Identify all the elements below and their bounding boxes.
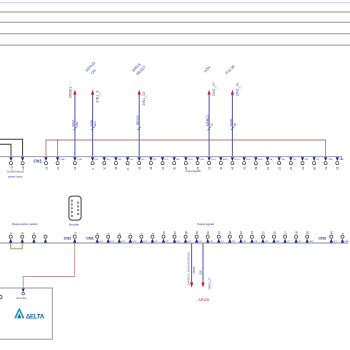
terminal CN1 pin 8 (126, 157, 134, 170)
svg-text:DI4-: DI4- (129, 159, 133, 161)
svg-text:35: 35 (261, 231, 265, 235)
svg-text:KIRMIZI: KIRMIZI (205, 115, 209, 126)
svg-text:4: 4 (96, 232, 100, 234)
terminal output pin 3 (341, 232, 350, 243)
wire input ARIZA RESET BEYAZ (138, 94, 140, 157)
svg-text:PULSE: PULSE (225, 64, 237, 76)
wire input PULSE YESIL (231, 94, 233, 157)
terminal CN1 pin L2c (21, 157, 25, 170)
svg-text:DI1-: DI1- (95, 159, 99, 161)
arrow up signal 2 (91, 90, 94, 95)
svg-text:COM-: COM- (77, 159, 83, 161)
terminal output pin 30 (206, 231, 214, 243)
svg-text:1.1.2: 1.1.2 (70, 81, 72, 85)
svg-text:/OA: /OA (281, 158, 285, 161)
terminal CN1 pin 10 (103, 157, 111, 170)
terminal output pin 5 (107, 232, 116, 243)
svg-text:GND: GND (309, 241, 314, 243)
svg-text:ON: ON (90, 68, 97, 75)
svg-text:1.1.2: 1.1.2 (241, 85, 243, 89)
svg-text:Output signals: Output signals (197, 222, 215, 226)
svg-text:BEYAZ: BEYAZ (136, 115, 140, 125)
terminal CN1 pin 34 (114, 157, 122, 170)
svg-text:OB: OB (293, 159, 297, 161)
wire control power L1c feed (0, 144, 11, 156)
terminal motor encoder (22, 289, 25, 293)
svg-text:(0): (0) (75, 232, 77, 235)
drive output terminal rail (0, 242, 348, 244)
svg-text:GND: GND (339, 159, 344, 161)
terminal CN1 pin 41 (242, 157, 251, 170)
svg-text:2VDC3: 2VDC3 (69, 86, 73, 98)
svg-text:C: C (32, 232, 36, 234)
power line PE (0, 44, 350, 46)
svg-text:GRI: GRI (198, 270, 202, 275)
svg-text:DO4-: DO4- (199, 159, 204, 161)
node 24V junction (57, 139, 59, 141)
svg-text:21: 21 (266, 166, 270, 170)
svg-text:32: 32 (228, 231, 232, 235)
svg-text:34: 34 (114, 166, 118, 170)
svg-text:49: 49 (330, 231, 334, 235)
svg-text:19: 19 (336, 166, 340, 170)
arrow up signal 3 (138, 90, 141, 95)
wire regenerative resistor jumper P-D (11, 243, 23, 248)
terminal output pin 39 (305, 231, 314, 243)
svg-text:2IN1_41: 2IN1_41 (236, 82, 240, 96)
connector encoder D-sub shell (69, 196, 81, 220)
svg-text:VCC: VCC (333, 241, 338, 243)
svg-text:24VDC3_KAHVERENGI: 24VDC3_KAHVERENGI (187, 251, 191, 285)
terminal CN1 pin 28 (184, 157, 194, 170)
svg-text:26: 26 (162, 231, 166, 235)
svg-text:50: 50 (312, 166, 316, 170)
svg-text:1.1.2: 1.1.2 (212, 283, 214, 287)
terminal output pin 27 (173, 231, 181, 243)
svg-text:39: 39 (254, 166, 258, 170)
terminal output pin 49 (330, 231, 338, 243)
svg-text:DI3-: DI3- (118, 159, 122, 161)
wire input YON KIRMIZI (208, 94, 210, 157)
terminal CN1 pin 11 (56, 157, 66, 170)
svg-text:/OB: /OB (304, 159, 308, 161)
terminal CN1 pin 39 (254, 157, 263, 170)
terminal output pin D (21, 232, 25, 242)
terminal CN1 pin 33 (138, 157, 146, 170)
power line L1 (0, 11, 350, 13)
svg-text:6: 6 (118, 232, 122, 234)
wire output GRI fault (202, 243, 204, 282)
encoder D-sub pins left (71, 200, 73, 217)
terminal CN1 pin 22 (277, 157, 285, 170)
svg-text:2INY1_27: 2INY1_27 (208, 277, 212, 289)
svg-text:27: 27 (173, 231, 177, 235)
terminal output pin 32 (228, 231, 236, 243)
terminal CN1 pin 37 (207, 157, 216, 170)
svg-text:36: 36 (219, 166, 223, 170)
svg-text:GND: GND (344, 241, 349, 243)
svg-text:2IN1_9: 2IN1_9 (96, 90, 100, 102)
wire 24V rail COM+ (46, 140, 326, 156)
svg-text:36: 36 (272, 231, 276, 235)
terminal CN1 pin 21 (266, 157, 273, 170)
svg-text:OA: OA (269, 158, 273, 161)
wire encoder cable CN2 to motor (23, 243, 74, 287)
terminal CN1 pin 32 (149, 157, 157, 170)
svg-text:Regenerative resistor: Regenerative resistor (12, 222, 38, 226)
power line L0 (0, 2, 350, 4)
terminal output pin 2 (151, 232, 159, 243)
svg-text:33: 33 (239, 231, 243, 235)
svg-text:38: 38 (233, 123, 237, 127)
svg-text:COM+: COM+ (328, 159, 335, 161)
wire input SERVO ON SARI (92, 94, 94, 157)
wire break slash 2 (91, 127, 94, 130)
svg-text:GRI: GRI (93, 121, 97, 127)
svg-text:1.1.2: 1.1.2 (147, 94, 149, 98)
wire control power L2c feed (0, 139, 23, 156)
svg-text:41: 41 (242, 166, 246, 170)
terminal output pin 28 (184, 231, 192, 243)
svg-text:Control circuit: Control circuit (7, 170, 24, 174)
terminal output pin 29 (195, 231, 203, 243)
svg-text:YÖN: YÖN (203, 65, 212, 74)
terminal output pin 1 (140, 232, 149, 243)
svg-text:31: 31 (161, 166, 165, 170)
svg-text:ΔELTA: ΔELTA (26, 314, 45, 321)
svg-text:9: 9 (91, 168, 95, 170)
svg-text:13: 13 (324, 166, 328, 170)
svg-text:30: 30 (206, 231, 210, 235)
svg-text:2IN1_37: 2IN1_37 (212, 82, 216, 96)
wire 24V rail drop to COM+ (57, 140, 59, 156)
svg-text:-: - (44, 233, 48, 234)
svg-text:30: 30 (173, 166, 177, 170)
svg-text:34: 34 (250, 231, 254, 235)
svg-text:29: 29 (195, 231, 199, 235)
svg-text:DI6-: DI6- (153, 159, 157, 161)
svg-text:10: 10 (103, 166, 107, 170)
svg-text:43: 43 (231, 166, 235, 170)
svg-text:11: 11 (56, 167, 60, 170)
svg-text:5: 5 (107, 232, 111, 234)
svg-text:Encoder: Encoder (17, 296, 27, 300)
svg-text:D: D (21, 232, 25, 234)
terminal output pin 35 (261, 231, 268, 243)
terminal CN1 pin 23 (301, 157, 309, 170)
svg-text:PULL: PULL (211, 159, 217, 161)
terminal CN1 pin 36 (219, 157, 228, 170)
encoder D-sub pins right (77, 202, 79, 215)
terminal CN1 pin 31 (161, 157, 169, 170)
terminal output pin 31 (217, 231, 225, 243)
svg-text:39: 39 (305, 231, 309, 235)
svg-text:30C: 30C (75, 120, 79, 126)
terminal output pin 6 (118, 232, 127, 243)
svg-text:8: 8 (126, 168, 130, 170)
terminal CN1 pin 25 (289, 157, 296, 170)
terminal CN1 pin 30 (173, 157, 181, 170)
svg-text:SIGN: SIGN (223, 159, 228, 161)
svg-text:12: 12 (44, 166, 48, 170)
terminal output pin 37 (283, 231, 290, 243)
terminal output pin C (32, 232, 36, 242)
wire break slash 5 (231, 127, 234, 130)
svg-text:2IN1_33: 2IN1_33 (142, 92, 146, 106)
power line L2 (0, 21, 350, 23)
svg-text:1.1.2: 1.1.2 (101, 92, 103, 96)
arrow up signal 1 (73, 90, 76, 95)
svg-text:DI2-: DI2- (106, 159, 110, 161)
terminal output pin 33 (239, 231, 246, 243)
wire input 24VDC common MAVI (74, 94, 76, 157)
terminal CN1 pin 43 (231, 157, 240, 170)
terminal output pin 4 (96, 232, 105, 243)
terminal CN1 pin 27 (196, 157, 205, 170)
svg-text:ARIZA: ARIZA (198, 298, 210, 302)
terminal CN1 pin 9 (91, 157, 99, 170)
terminal output pin 38 (294, 231, 302, 243)
svg-text:CN3: CN3 (318, 236, 326, 240)
svg-text:23: 23 (301, 166, 305, 170)
svg-text:CN2: CN2 (64, 236, 72, 240)
svg-text:38: 38 (294, 231, 298, 235)
svg-text:31: 31 (217, 231, 221, 235)
svg-text:/SGN: /SGN (258, 159, 263, 161)
svg-text:37: 37 (283, 231, 287, 235)
svg-text:/PUL: /PUL (246, 159, 251, 161)
svg-text:33: 33 (138, 166, 142, 170)
motor shaft circle (0, 295, 2, 299)
svg-text:DI7-: DI7- (164, 159, 168, 161)
DELTA logo triangle (14, 307, 24, 318)
arrow up signal 5 (231, 90, 234, 95)
svg-text:PULS: PULS (234, 159, 240, 161)
svg-text:22: 22 (277, 166, 281, 170)
svg-text:DO4+: DO4+ (188, 159, 194, 161)
terminal CN1 pin 50 (312, 157, 319, 170)
svg-text:3: 3 (341, 232, 345, 234)
svg-text:2: 2 (151, 232, 155, 234)
arrow down output 1 (190, 282, 193, 287)
svg-text:2SOC: 2SOC (192, 266, 196, 273)
svg-text:OZ: OZ (316, 159, 320, 161)
wire break slash 1 (73, 127, 76, 130)
terminal CN1 pin 13 (324, 157, 334, 170)
terminal output pin - (44, 233, 48, 242)
svg-text:DI5-: DI5- (141, 159, 145, 161)
power line L3 (0, 33, 350, 35)
svg-text:28: 28 (184, 231, 188, 235)
svg-text:1: 1 (140, 232, 144, 234)
wire break slash 4 (208, 127, 211, 130)
svg-text:25: 25 (289, 166, 293, 170)
svg-text:CN1: CN1 (86, 236, 94, 240)
terminal output pin 36 (272, 231, 280, 243)
svg-text:P: P (9, 232, 13, 234)
svg-text:Encoder: Encoder (69, 222, 79, 226)
servo motor box (0, 288, 52, 339)
svg-text:power input: power input (8, 174, 23, 178)
svg-text:DI8-: DI8- (176, 159, 180, 161)
svg-text:14: 14 (73, 166, 77, 170)
arrow up signal 4 (208, 90, 211, 95)
svg-text:32: 32 (149, 166, 153, 170)
wire output 24VDC KAHVERENGI (191, 243, 193, 282)
svg-text:COM+: COM+ (60, 159, 67, 161)
terminal CN2 encoder (73, 235, 76, 242)
terminal output pin 26 (162, 231, 170, 243)
wire break slash 3 (138, 127, 141, 130)
terminal CN1 pin 14 (73, 157, 82, 170)
terminal CN1 pin 19 (336, 157, 345, 170)
svg-text:CN1: CN1 (33, 159, 42, 164)
drive input terminal rail CN1 (0, 157, 342, 160)
svg-text:Input signals: Input signals (186, 169, 202, 173)
terminal CN1 pin L1c (9, 157, 13, 170)
terminal CN1 pin 12 (44, 157, 48, 170)
terminal output pin 7 (129, 232, 138, 243)
terminal output pin P (9, 232, 15, 243)
terminal output pin 34 (250, 231, 258, 243)
svg-text:37: 37 (207, 166, 211, 170)
svg-text:1.1.2: 1.1.2 (217, 85, 219, 89)
arrow down output 2 (201, 282, 204, 287)
svg-text:7: 7 (129, 232, 133, 234)
svg-text:10: 10 (210, 123, 214, 127)
